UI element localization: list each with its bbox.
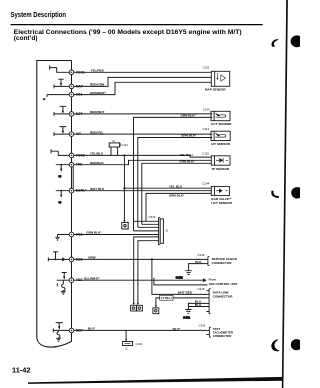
wire GRN/BLK TP sensor ground xyxy=(142,160,212,225)
MAP internal sensor symbol xyxy=(54,79,69,88)
pin SCS xyxy=(69,257,83,262)
svg-text:BLU/WHT*: BLU/WHT* xyxy=(84,276,100,280)
test tachometer connector C342 xyxy=(199,323,234,338)
svg-text:GRN/WHT*: GRN/WHT* xyxy=(90,91,107,95)
svg-text:WHT RED: WHT RED xyxy=(178,291,193,295)
ground G401 xyxy=(183,310,192,320)
svg-text:11-42: 11-42 xyxy=(12,366,31,375)
arrow from ABS control unit xyxy=(203,277,238,285)
svg-text:C110: C110 xyxy=(202,152,209,156)
service check connector C219 xyxy=(198,253,238,265)
TP sensor connector C110 xyxy=(202,152,230,171)
EGR valve lift sensor connector C144 xyxy=(202,182,232,205)
svg-text:≈: ≈ xyxy=(44,98,46,101)
ground box G403 xyxy=(153,308,159,314)
wire YEL/BLU to EGR lift sensor xyxy=(124,184,211,188)
junction dot SCS to DLC xyxy=(151,258,153,260)
SG1 internal stub xyxy=(44,95,70,101)
IAT internal thermistor xyxy=(54,127,69,137)
svg-text:YEL/RED: YEL/RED xyxy=(91,69,105,73)
wire GRN/BLK EGR sensor ground xyxy=(146,193,211,221)
page right edge scan line xyxy=(282,0,288,388)
ECM pin bus wire xyxy=(71,61,73,342)
pin SG2 xyxy=(69,232,82,237)
wire BLU NEP to test tachometer connector xyxy=(74,327,206,331)
bus parallel wire segment (TPS to EGRL) xyxy=(72,167,74,189)
IAT sensor connector C112 xyxy=(203,127,231,146)
VCC2 internal stub xyxy=(51,149,69,155)
wire GRN/BLK ECT sensor ground xyxy=(134,114,213,231)
check mark bottom xyxy=(271,339,280,351)
svg-text:C101: C101 xyxy=(136,342,143,346)
pin NEP xyxy=(69,328,83,333)
wire RED/WHT ECT to ECT sensor xyxy=(74,110,213,114)
ground box G101 xyxy=(131,305,137,311)
wire BLU DLC pins to ground xyxy=(188,300,206,310)
test point connector on VCC2 feed xyxy=(122,220,128,229)
svg-text:YEL/BLU: YEL/BLU xyxy=(90,152,104,156)
binder hole blob top xyxy=(291,35,304,47)
pin MAP xyxy=(69,84,84,89)
check mark top xyxy=(272,39,279,47)
wire GRN/WHT SG1 to MAP sensor xyxy=(74,82,212,95)
VCC1 internal stub xyxy=(50,65,69,72)
svg-text:MAP SENSOR: MAP SENSOR xyxy=(205,88,227,92)
svg-text:C342: C342 xyxy=(199,323,206,327)
wire RED/BLK TPS to TP sensor xyxy=(74,160,212,165)
svg-text:GRN BLK*: GRN BLK* xyxy=(181,114,197,118)
wire BLU/WHT VSS from ABS control unit xyxy=(74,276,203,280)
MAP sensor connector C131 xyxy=(203,66,230,92)
junction connector J1 C570 xyxy=(134,215,169,304)
svg-text:IAT SENSOR: IAT SENSOR xyxy=(211,142,230,146)
pin TPS xyxy=(69,162,83,167)
arrow into inline connector xyxy=(125,339,127,341)
SCS internal switch xyxy=(48,252,69,262)
ground lead arrow into ground box 2 xyxy=(137,303,139,305)
svg-text:G401: G401 xyxy=(183,315,190,319)
svg-text:ECT SENSOR: ECT SENSOR xyxy=(211,122,232,126)
svg-text:CONNECTOR: CONNECTOR xyxy=(212,261,233,265)
svg-text:WHT BLK: WHT BLK xyxy=(90,187,105,191)
wire YEL/RED VCC1 to MAP sensor xyxy=(74,69,212,73)
svg-text:(cont’d): (cont’d) xyxy=(14,35,38,42)
svg-text:BLU*: BLU* xyxy=(173,327,181,331)
svg-text:YEL BLU: YEL BLU xyxy=(169,184,183,188)
wire K-line stub to data link connector xyxy=(154,278,208,285)
pin VCC2 xyxy=(69,153,85,158)
wire WHT/BLK EGRL to EGR lift sensor xyxy=(74,187,212,191)
header title xyxy=(11,10,263,42)
svg-text:C416: C416 xyxy=(198,287,205,291)
junction dot EGR YEL/BLU feed xyxy=(123,187,125,189)
svg-text:RED/WHT: RED/WHT xyxy=(90,110,105,114)
pin EGRL xyxy=(69,188,87,193)
pin VCC1 xyxy=(69,70,85,75)
EGRL internal potentiometer xyxy=(56,190,69,204)
ground G402 xyxy=(176,271,192,280)
SG2 internal ground xyxy=(55,235,69,241)
svg-text:C112: C112 xyxy=(203,127,210,131)
svg-text:RED/GRN: RED/GRN xyxy=(90,83,105,87)
svg-text:From: From xyxy=(209,277,217,281)
svg-text:YEL BLU: YEL BLU xyxy=(179,153,193,157)
svg-text:GRN BLK*: GRN BLK* xyxy=(181,134,197,138)
svg-text:GRN BLK*: GRN BLK* xyxy=(179,160,195,164)
svg-text:RED/BLK: RED/BLK xyxy=(90,161,105,165)
wire GRN/BLK SG2 to junction J1 xyxy=(74,231,159,235)
ground lead arrow into ground box 3 xyxy=(155,306,157,308)
data link connector C416 xyxy=(198,287,234,314)
VSS internal circuit xyxy=(57,273,69,295)
svg-text:LIFT SENSOR: LIFT SENSOR xyxy=(211,201,232,205)
svg-text:J1: J1 xyxy=(165,228,168,232)
svg-text:BLU*: BLU* xyxy=(88,327,96,331)
svg-text:GRN BLK*: GRN BLK* xyxy=(86,231,102,235)
junction connector J4 C131 on VCC2 wire xyxy=(109,139,128,155)
svg-text:C131: C131 xyxy=(203,66,210,70)
svg-text:TP SENSOR: TP SENSOR xyxy=(211,167,230,171)
svg-text:CONNECTOR: CONNECTOR xyxy=(213,334,232,338)
ECT sensor connector C105 xyxy=(203,107,232,126)
wire VCC2 feed down to EGR and test point xyxy=(123,155,125,221)
svg-text:CONNECTOR: CONNECTOR xyxy=(213,295,234,299)
svg-text:C105: C105 xyxy=(203,107,210,111)
check mark middle xyxy=(271,191,279,198)
wire drop to inline connector C105 xyxy=(125,330,127,340)
wire BLK service check to ground xyxy=(189,260,207,271)
pin IAT xyxy=(69,132,82,137)
wire YEL/BLU VCC2 to TP sensor xyxy=(74,152,212,158)
binder hole blob bottom xyxy=(291,339,302,350)
svg-text:Electrical Connections (’99 –: Electrical Connections (’99 – 00 Models … xyxy=(14,29,242,36)
svg-text:sg: sg xyxy=(59,175,62,178)
svg-text:GRN BLK*: GRN BLK* xyxy=(169,193,185,197)
svg-text:C570: C570 xyxy=(149,215,156,219)
TPS internal potentiometer xyxy=(56,164,69,178)
ground box G102 xyxy=(137,305,143,311)
svg-text:BLU: BLU xyxy=(195,303,202,307)
svg-text:sg: sg xyxy=(59,201,62,204)
wire RED/YEL IAT to IAT sensor xyxy=(74,130,213,134)
svg-text:System Description: System Description xyxy=(11,10,67,19)
svg-text:J2: J2 xyxy=(125,347,128,351)
svg-text:G402: G402 xyxy=(176,275,183,279)
ECM box outline xyxy=(37,61,72,348)
svg-text:C144: C144 xyxy=(202,182,209,186)
pin VSS xyxy=(69,278,83,283)
ground lead arrow into ground box 1 xyxy=(133,303,135,305)
binder hole blob middle xyxy=(291,187,303,198)
pin ECT xyxy=(69,112,83,117)
page bottom edge bar xyxy=(28,377,283,384)
svg-text:ABS CONTROL UNIT: ABS CONTROL UNIT xyxy=(209,282,238,286)
pin number marks xyxy=(71,72,73,332)
wire BRN SCS to service check connector xyxy=(74,256,206,260)
svg-text:LT BLU: LT BLU xyxy=(161,296,173,300)
inline connector C101 xyxy=(123,342,143,351)
junction dot VCC2/EGR feed xyxy=(123,154,125,156)
wire WHT/RED SCS to data link connector xyxy=(152,259,208,294)
NEP internal circuit xyxy=(53,323,69,342)
svg-text:BLK: BLK xyxy=(195,260,202,264)
wire RED/GRN MAP to MAP sensor xyxy=(74,77,212,86)
svg-text:C131: C131 xyxy=(122,143,129,147)
svg-text:C219: C219 xyxy=(198,253,205,257)
svg-text:BRN*: BRN* xyxy=(88,256,97,260)
svg-text:RED/YEL: RED/YEL xyxy=(90,130,104,134)
wire GRN/BLK IAT sensor ground xyxy=(138,134,213,228)
ECT internal thermistor xyxy=(54,106,69,116)
pin SG1 xyxy=(69,92,82,97)
wire LT BLU to data link connector xyxy=(156,295,208,305)
